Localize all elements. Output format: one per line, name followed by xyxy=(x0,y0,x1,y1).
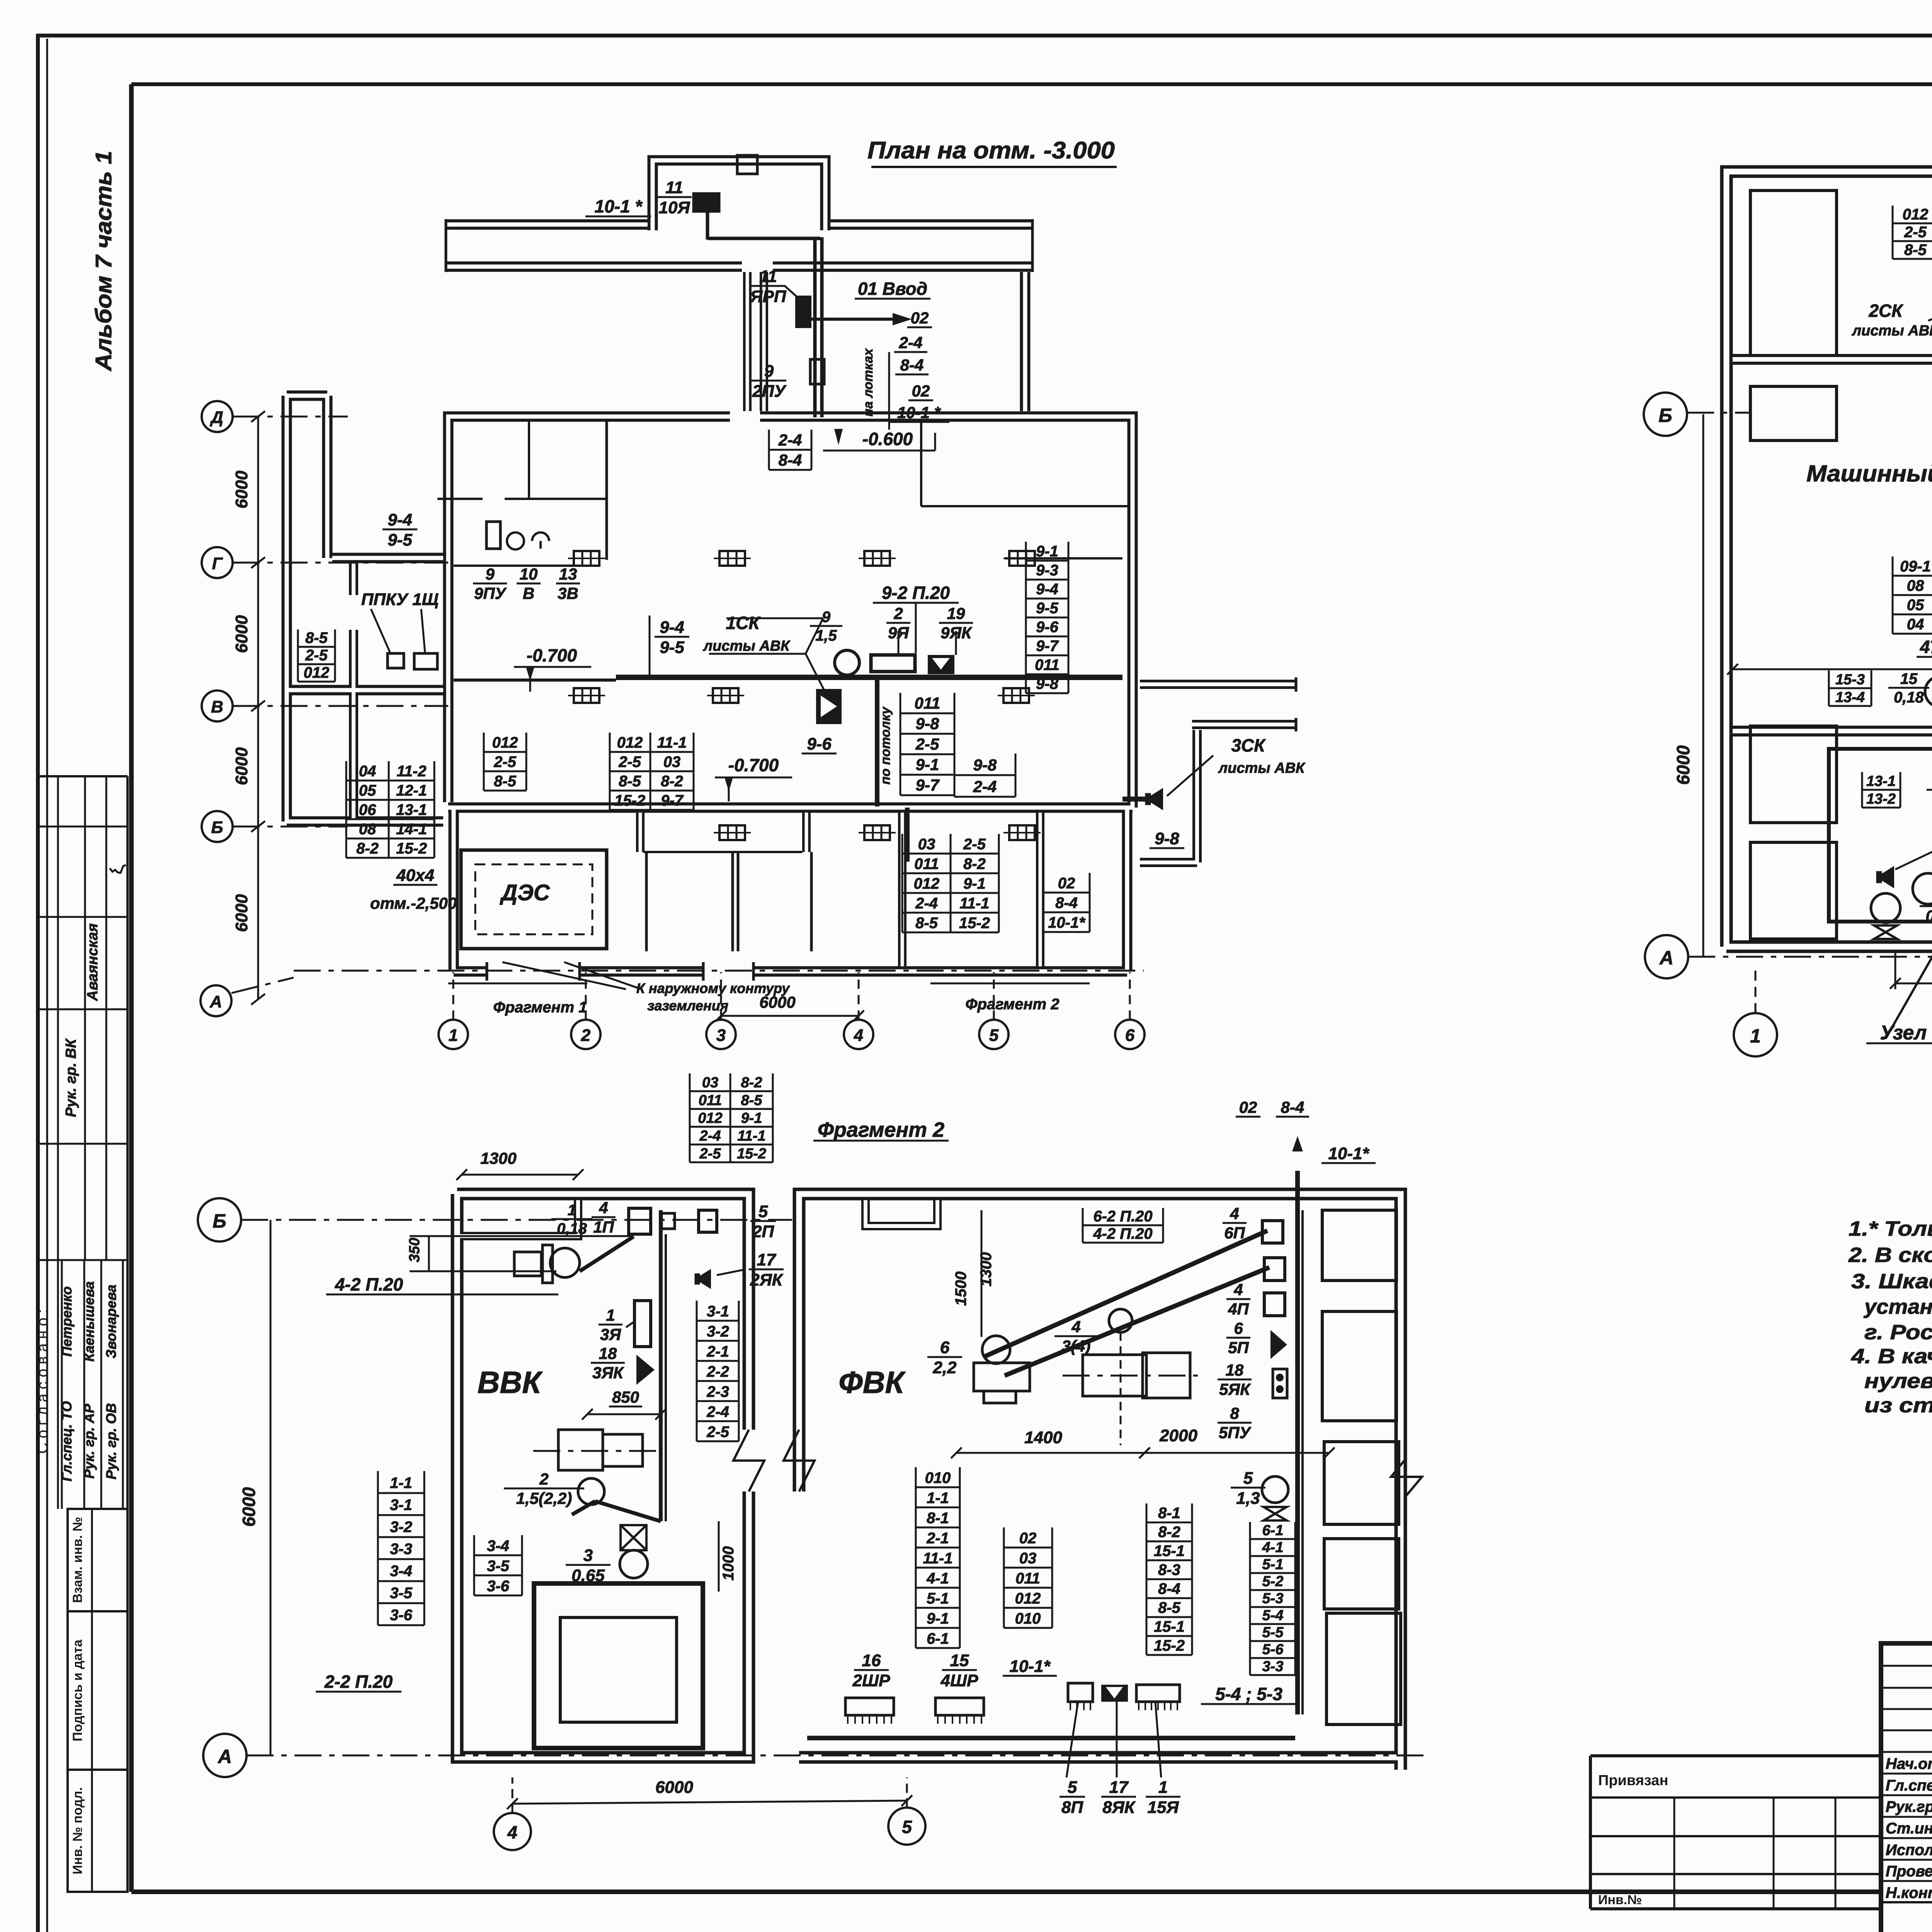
table 04 11-2 xyxy=(346,780,434,782)
paper outer border top xyxy=(37,34,1932,37)
1300 dim VVK xyxy=(462,1174,578,1176)
svg-text:2: 2 xyxy=(893,604,903,622)
thick cable B-row to 3SK xyxy=(1122,797,1146,802)
svg-text:Н.контр.: Н.контр. xyxy=(1886,1884,1932,1901)
svg-text:0,065: 0,065 xyxy=(1925,907,1932,925)
svg-text:3-1: 3-1 xyxy=(390,1497,412,1514)
svg-text:02: 02 xyxy=(1019,1530,1037,1547)
FVK right wing rooms xyxy=(1322,1210,1396,1281)
svg-text:3-2: 3-2 xyxy=(390,1519,412,1536)
svg-text:Инв. № подл.: Инв. № подл. xyxy=(70,1787,85,1874)
svg-text:Рук. гр. ВК: Рук. гр. ВК xyxy=(63,1038,79,1117)
svg-text:9-8: 9-8 xyxy=(973,756,997,774)
svg-text:02: 02 xyxy=(1239,1098,1257,1116)
svg-text:02: 02 xyxy=(912,382,930,400)
bottom devices FVK xyxy=(1068,1683,1093,1702)
table 012 2-5 8-5 xyxy=(484,751,526,753)
svg-text:6000: 6000 xyxy=(1673,745,1693,785)
svg-text:4: 4 xyxy=(1233,1281,1243,1299)
svg-text:15-2: 15-2 xyxy=(737,1146,766,1162)
1P device xyxy=(629,1208,651,1234)
svg-text:03: 03 xyxy=(702,1075,718,1091)
svg-text:6000: 6000 xyxy=(759,993,795,1011)
svg-text:11: 11 xyxy=(665,178,683,197)
svg-text:011: 011 xyxy=(915,694,940,712)
svg-text:9: 9 xyxy=(822,609,831,626)
svg-text:-0.600: -0.600 xyxy=(862,429,913,449)
list 010..6-1 xyxy=(916,1486,960,1488)
svg-text:2-4: 2-4 xyxy=(973,777,997,796)
svg-text:2ЯК: 2ЯК xyxy=(750,1270,784,1289)
svg-text:012: 012 xyxy=(492,734,518,751)
svg-text:9-5: 9-5 xyxy=(1036,600,1059,617)
svg-text:15-3: 15-3 xyxy=(1835,672,1865,688)
svg-text:6000: 6000 xyxy=(655,1778,693,1797)
pump small xyxy=(1925,676,1932,707)
svg-text:8-2: 8-2 xyxy=(1158,1524,1180,1541)
svg-text:1-1: 1-1 xyxy=(927,1490,949,1507)
svg-text:6П: 6П xyxy=(1224,1224,1245,1242)
svg-text:3(4): 3(4) xyxy=(1062,1337,1091,1355)
svg-text:Б: Б xyxy=(1658,405,1672,426)
G row devices xyxy=(486,522,500,549)
svg-text:1СК: 1СК xyxy=(726,613,760,633)
svg-text:3. Шкафы управления 1Щ и: 3. Шкафы управления 1Щ и ППКУ выполняютс… xyxy=(1851,1270,1932,1293)
machine FVK xyxy=(1109,1309,1132,1332)
svg-text:11-2: 11-2 xyxy=(396,763,426,780)
diag cables FVK xyxy=(983,1231,1267,1357)
svg-text:16: 16 xyxy=(862,1651,881,1670)
svg-text:листы АВК: листы АВК xyxy=(1218,760,1306,776)
svg-text:устанавливаются по проекту: устанавливаются по проекту ГПИ „Спецавто… xyxy=(1863,1295,1932,1318)
svg-text:05: 05 xyxy=(1907,597,1924,614)
svg-text:40х4: 40х4 xyxy=(396,866,434,885)
svg-text:ППКУ 1Щ: ППКУ 1Щ xyxy=(361,590,439,609)
B-row cable tray thick line xyxy=(616,675,1122,680)
svg-text:5: 5 xyxy=(902,1817,912,1837)
svg-text:3В: 3В xyxy=(558,584,578,602)
svg-text:12-1: 12-1 xyxy=(396,782,427,799)
svg-text:6: 6 xyxy=(1234,1319,1243,1337)
diag cable VVK xyxy=(580,1236,634,1271)
svg-text:3-4: 3-4 xyxy=(390,1563,412,1580)
list 1-1 3-1..3-6 xyxy=(378,1492,424,1494)
axis lines horizontal xyxy=(233,416,348,418)
svg-text:9-2 П.20: 9-2 П.20 xyxy=(882,583,950,603)
cable drop at column 4 xyxy=(875,680,879,806)
svg-text:5: 5 xyxy=(1068,1778,1077,1797)
svg-text:8ЯК: 8ЯК xyxy=(1102,1798,1136,1817)
svg-text:8: 8 xyxy=(1230,1404,1239,1422)
svg-text:2-5: 2-5 xyxy=(493,753,517,770)
svg-text:3-3: 3-3 xyxy=(1262,1658,1284,1675)
frag1 bottom circles xyxy=(1734,1013,1777,1056)
svg-text:3-3: 3-3 xyxy=(390,1541,412,1558)
svg-text:08: 08 xyxy=(1907,577,1924,594)
svg-text:8-1: 8-1 xyxy=(1158,1505,1180,1522)
svg-text:5-6: 5-6 xyxy=(1262,1641,1284,1658)
inner square room VVK xyxy=(534,1583,703,1748)
svg-text:Подпись и дата: Подпись и дата xyxy=(70,1639,85,1742)
table 011 group xyxy=(900,713,954,714)
svg-text:2-3: 2-3 xyxy=(706,1383,729,1400)
svg-text:15-1: 15-1 xyxy=(1154,1618,1185,1635)
svg-text:8-4: 8-4 xyxy=(779,451,802,469)
G-row thin line right xyxy=(1005,557,1122,560)
svg-text:15-2: 15-2 xyxy=(959,915,990,932)
axis circle B xyxy=(202,811,233,842)
svg-text:04: 04 xyxy=(359,763,376,780)
svg-text:2-2: 2-2 xyxy=(706,1363,729,1380)
svg-text:10-1*: 10-1* xyxy=(1048,914,1086,931)
pump VVK xyxy=(620,1550,648,1578)
svg-text:5ПУ: 5ПУ xyxy=(1219,1423,1252,1442)
svg-text:012: 012 xyxy=(698,1110,722,1126)
column symbols xyxy=(574,551,599,566)
svg-text:350: 350 xyxy=(406,1238,423,1262)
svg-text:9: 9 xyxy=(485,565,495,583)
svg-text:Провер.: Провер. xyxy=(1886,1863,1932,1880)
svg-text:13-2: 13-2 xyxy=(1866,791,1896,807)
svg-text:02: 02 xyxy=(911,309,929,327)
svg-text:9-7: 9-7 xyxy=(1036,638,1059,655)
VVK zigzag break xyxy=(733,1430,764,1492)
svg-text:15-2: 15-2 xyxy=(614,792,645,809)
svg-text:11-1: 11-1 xyxy=(657,734,687,751)
svg-text:3-5: 3-5 xyxy=(390,1585,413,1602)
frag2 bottom circles xyxy=(494,1813,531,1850)
svg-text:4. В качестве заземляющих п: 4. В качестве заземляющих проводников ис… xyxy=(1851,1345,1932,1368)
svg-text:5-4: 5-4 xyxy=(1262,1607,1284,1624)
table 012 11-1 grid xyxy=(610,751,694,753)
6-2 4-2 P20 box xyxy=(1083,1225,1163,1226)
svg-text:010: 010 xyxy=(925,1469,951,1486)
svg-text:1.* Только для варианта с г: 1.* Только для варианта с грузовым лифто… xyxy=(1849,1217,1932,1240)
svg-text:08: 08 xyxy=(359,821,376,838)
svg-text:5-1: 5-1 xyxy=(1262,1556,1284,1573)
svg-text:4: 4 xyxy=(599,1199,608,1217)
svg-text:9-4: 9-4 xyxy=(660,618,684,637)
svg-text:8-5: 8-5 xyxy=(305,629,328,646)
svg-text:8-5: 8-5 xyxy=(915,915,938,932)
svg-text:2П: 2П xyxy=(752,1222,774,1241)
svg-text:3-6: 3-6 xyxy=(487,1578,510,1595)
fan unit FVK xyxy=(982,1336,1010,1364)
svg-text:Г: Г xyxy=(212,554,223,573)
garage lintel and door leaves xyxy=(643,851,802,853)
svg-text:1500: 1500 xyxy=(952,1272,969,1306)
svg-text:012: 012 xyxy=(1015,1590,1041,1607)
svg-text:5ЯК: 5ЯК xyxy=(1219,1380,1251,1398)
svg-text:011: 011 xyxy=(1015,1570,1040,1587)
fragment brackets bottom xyxy=(448,983,587,985)
svg-text:8-1: 8-1 xyxy=(927,1510,949,1527)
svg-text:С о г л а с о в а н о :: С о г л а с о в а н о : xyxy=(34,1309,51,1454)
svg-text:9-1: 9-1 xyxy=(916,755,939,774)
svg-text:6000: 6000 xyxy=(232,747,251,785)
list 6-1..3-3 xyxy=(1250,1538,1295,1540)
svg-text:отм.-2,500: отм.-2,500 xyxy=(370,894,457,912)
svg-text:1: 1 xyxy=(1750,1025,1761,1047)
svg-text:6000: 6000 xyxy=(232,894,251,932)
svg-text:2-5: 2-5 xyxy=(963,836,986,853)
svg-text:02: 02 xyxy=(1058,875,1075,892)
svg-text:4: 4 xyxy=(507,1822,517,1842)
svg-text:8-5: 8-5 xyxy=(1904,241,1927,259)
svg-text:6-1: 6-1 xyxy=(1262,1522,1284,1539)
svg-text:05: 05 xyxy=(359,782,376,799)
svg-text:по потолку: по потолку xyxy=(878,706,893,785)
svg-text:План на отм. -3.000: План на отм. -3.000 xyxy=(867,137,1115,164)
svg-text:01 Ввод: 01 Ввод xyxy=(858,279,927,299)
svg-text:15-1: 15-1 xyxy=(1154,1543,1185,1560)
svg-text:Рук.гр.: Рук.гр. xyxy=(1886,1798,1932,1815)
svg-text:6: 6 xyxy=(1125,1026,1135,1045)
svg-text:11-1: 11-1 xyxy=(923,1550,952,1567)
machine VVK mid xyxy=(558,1430,603,1470)
svg-text:2,2: 2,2 xyxy=(932,1358,957,1377)
svg-text:2-5: 2-5 xyxy=(699,1146,721,1162)
svg-text:2-5: 2-5 xyxy=(618,753,641,770)
svg-text:1,5(2,2): 1,5(2,2) xyxy=(516,1489,572,1507)
svg-text:9-1: 9-1 xyxy=(1036,543,1058,560)
svg-text:5: 5 xyxy=(989,1026,999,1045)
svg-text:13-4: 13-4 xyxy=(1835,689,1865,706)
svg-text:5-3: 5-3 xyxy=(1262,1590,1284,1607)
svg-text:012: 012 xyxy=(304,664,330,681)
svg-text:3-4: 3-4 xyxy=(487,1537,509,1554)
svg-text:Гл.спец.: Гл.спец. xyxy=(1886,1777,1932,1794)
svg-text:3ЯК: 3ЯК xyxy=(592,1364,624,1382)
FVK right zigzag xyxy=(1391,1458,1422,1495)
svg-text:6000: 6000 xyxy=(239,1487,259,1527)
list 02..010 xyxy=(1004,1547,1052,1549)
svg-text:3-5: 3-5 xyxy=(487,1558,510,1575)
gost rows xyxy=(68,1509,128,1611)
bottom wall with door gaps xyxy=(486,962,488,981)
left dimension chain xyxy=(257,417,259,999)
svg-text:012: 012 xyxy=(1903,206,1929,223)
svg-text:4ШР: 4ШР xyxy=(940,1671,979,1690)
svg-text:0,18: 0,18 xyxy=(557,1220,587,1237)
svg-text:8-5: 8-5 xyxy=(619,773,641,790)
svg-text:2-5: 2-5 xyxy=(305,647,328,664)
svg-text:13: 13 xyxy=(559,565,577,583)
svg-text:15Я: 15Я xyxy=(1147,1798,1179,1817)
vertical cable VVK xyxy=(659,1210,663,1521)
svg-text:ДЭС: ДЭС xyxy=(499,880,550,905)
svg-text:17: 17 xyxy=(1109,1778,1129,1797)
svg-text:14-1: 14-1 xyxy=(396,821,427,838)
axis circle G xyxy=(202,547,233,578)
svg-text:03: 03 xyxy=(663,753,681,770)
svg-text:Нач.отд.: Нач.отд. xyxy=(1886,1755,1932,1772)
svg-text:9-3: 9-3 xyxy=(1036,562,1058,579)
svg-text:2-4: 2-4 xyxy=(778,431,802,449)
svg-text:5П: 5П xyxy=(1228,1338,1249,1357)
svg-text:9-8: 9-8 xyxy=(1036,675,1059,692)
svg-text:3: 3 xyxy=(583,1546,593,1565)
svg-text:-0.700: -0.700 xyxy=(527,645,577,665)
svg-text:3СК: 3СК xyxy=(1231,735,1266,755)
svg-text:10-1 *: 10-1 * xyxy=(897,403,941,422)
svg-text:1: 1 xyxy=(449,1026,458,1045)
svg-text:1400: 1400 xyxy=(1024,1428,1062,1447)
list 8-1..15-2 xyxy=(1146,1522,1192,1524)
svg-text:09-1: 09-1 xyxy=(1900,558,1931,575)
svg-text:листы АВК: листы АВК xyxy=(702,638,791,654)
svg-text:9-4: 9-4 xyxy=(1036,581,1058,598)
svg-text:2-4: 2-4 xyxy=(915,895,938,912)
svg-text:9-5: 9-5 xyxy=(388,531,412,549)
svg-text:8П: 8П xyxy=(1061,1798,1083,1817)
svg-text:012: 012 xyxy=(617,734,643,751)
svg-text:03: 03 xyxy=(1019,1550,1037,1567)
table 8-5 2-5 012 xyxy=(298,646,335,648)
svg-text:ФВК: ФВК xyxy=(838,1365,906,1400)
thick cable bottom FVK xyxy=(807,1736,1295,1740)
svg-text:9: 9 xyxy=(764,362,774,381)
svg-text:ВВК: ВВК xyxy=(478,1365,543,1400)
right list 9-1..9-8 xyxy=(1026,560,1068,562)
svg-text:04: 04 xyxy=(1907,616,1924,633)
svg-text:4: 4 xyxy=(1230,1204,1239,1223)
svg-text:012: 012 xyxy=(914,875,940,892)
corridor end caps xyxy=(445,219,447,272)
svg-text:8-5: 8-5 xyxy=(1158,1599,1181,1616)
svg-text:Альбом 7 часть 1: Альбом 7 часть 1 xyxy=(91,151,116,372)
cooling room box xyxy=(1829,749,1932,922)
svg-text:5-2: 5-2 xyxy=(1262,1573,1284,1590)
paper outer border left xyxy=(36,34,40,1932)
frag1 axis circle A xyxy=(1645,935,1688,978)
2-4 8-4 table xyxy=(769,449,811,451)
svg-text:ЯРП: ЯРП xyxy=(750,287,786,306)
svg-text:В: В xyxy=(523,584,534,602)
walls layer xyxy=(457,1194,749,1430)
svg-text:Б: Б xyxy=(213,1210,226,1232)
G-row interior line xyxy=(454,565,597,567)
svg-text:Фрагмент 2: Фрагмент 2 xyxy=(965,996,1059,1013)
svg-text:9-1: 9-1 xyxy=(927,1610,949,1627)
svg-text:2-4: 2-4 xyxy=(699,1128,721,1144)
svg-text:8-3: 8-3 xyxy=(1158,1561,1180,1578)
svg-text:11-1: 11-1 xyxy=(737,1128,765,1144)
svg-text:г. Ростов-на-Дону А-П(Ш,IV): г. Ростов-на-Дону А-П(Ш,IV)-1200-314.86 … xyxy=(1864,1321,1932,1344)
list 3-1..2-5 xyxy=(697,1320,739,1322)
signature column grid xyxy=(1881,1665,1932,1667)
svg-text:8-2: 8-2 xyxy=(661,773,683,790)
svg-text:9-1: 9-1 xyxy=(963,875,986,892)
svg-text:2-5: 2-5 xyxy=(706,1423,730,1440)
svg-text:06: 06 xyxy=(359,801,376,818)
table above title xyxy=(690,1090,773,1092)
svg-text:1,3: 1,3 xyxy=(1236,1489,1260,1508)
left room small xyxy=(1750,386,1837,440)
svg-text:Привязан: Привязан xyxy=(1598,1772,1668,1789)
svg-text:5: 5 xyxy=(1243,1469,1253,1488)
table 13-1 13-2 xyxy=(1862,789,1900,791)
svg-text:4700: 4700 xyxy=(1920,637,1932,657)
svg-text:2-4: 2-4 xyxy=(899,333,923,352)
shaft cable bundle xyxy=(813,240,817,417)
table 02 8-4 10-1 xyxy=(1043,892,1090,894)
svg-text:из стали 40х4.: из стали 40х4. xyxy=(1864,1394,1932,1417)
svg-text:9-8: 9-8 xyxy=(1155,829,1179,848)
svg-text:10-1*: 10-1* xyxy=(1328,1144,1369,1163)
svg-text:5-4 ; 5-3: 5-4 ; 5-3 xyxy=(1215,1684,1282,1704)
svg-text:1-1: 1-1 xyxy=(390,1475,412,1492)
svg-text:2-5: 2-5 xyxy=(915,735,939,753)
walls layer xyxy=(653,160,825,230)
svg-text:4-2 П.20: 4-2 П.20 xyxy=(1093,1225,1152,1242)
frag1 axis circle B xyxy=(1644,393,1687,436)
svg-text:3-1: 3-1 xyxy=(707,1303,729,1320)
bottom axis circles 1-6 xyxy=(439,1020,468,1049)
svg-text:10: 10 xyxy=(520,565,538,583)
svg-text:011: 011 xyxy=(914,855,939,872)
svg-text:листы АВК: листы АВК xyxy=(1851,323,1932,339)
svg-text:010: 010 xyxy=(1015,1610,1041,1627)
svg-text:9-6: 9-6 xyxy=(807,735,832,753)
svg-text:1300: 1300 xyxy=(480,1149,516,1167)
svg-text:2-2 П.20: 2-2 П.20 xyxy=(324,1672,393,1692)
svg-text:4: 4 xyxy=(854,1026,863,1045)
svg-text:6-1: 6-1 xyxy=(927,1630,949,1647)
table 03 2-5 block xyxy=(902,853,999,855)
table 012 2-5 8-5 frag1 xyxy=(1893,223,1932,224)
svg-text:6-2 П.20: 6-2 П.20 xyxy=(1093,1208,1152,1225)
svg-text:15: 15 xyxy=(950,1651,969,1670)
svg-text:Машинный зал ДЭС: Машинный зал ДЭС xyxy=(1806,461,1932,486)
svg-text:-0.700: -0.700 xyxy=(728,755,779,775)
svg-text:6: 6 xyxy=(940,1338,950,1357)
svg-text:011: 011 xyxy=(699,1092,722,1109)
svg-text:0,65: 0,65 xyxy=(571,1566,605,1585)
frag2 dim 6000 left xyxy=(270,1220,272,1755)
svg-text:10-1*: 10-1* xyxy=(1009,1657,1051,1676)
svg-text:заземления: заземления xyxy=(647,998,728,1014)
B axis frag2 xyxy=(198,1198,241,1242)
svg-text:2000: 2000 xyxy=(1159,1426,1197,1445)
3SK speaker xyxy=(1145,788,1163,810)
svg-text:4-1: 4-1 xyxy=(926,1570,949,1587)
svg-text:3Я: 3Я xyxy=(600,1325,621,1344)
svg-text:9-8: 9-8 xyxy=(916,714,939,733)
cooling machines xyxy=(1913,873,1932,904)
svg-text:9-4: 9-4 xyxy=(388,510,412,529)
table 09-1 08 05 04 xyxy=(1893,575,1932,577)
table 3-4 3-5 3-6 xyxy=(474,1554,522,1556)
svg-text:А: А xyxy=(1659,947,1673,969)
svg-text:1000: 1000 xyxy=(720,1546,737,1581)
svg-text:10Я: 10Я xyxy=(658,198,690,217)
svg-text:Фрагмент 1: Фрагмент 1 xyxy=(493,999,587,1016)
diag cable to machine xyxy=(595,1501,661,1521)
svg-text:10-1 *: 10-1 * xyxy=(595,196,643,216)
svg-text:8-5: 8-5 xyxy=(741,1092,763,1109)
svg-text:15-2: 15-2 xyxy=(396,840,427,857)
svg-text:2. В скобках - данные для к: 2. В скобках - данные для климатической … xyxy=(1848,1243,1932,1267)
svg-text:4-1: 4-1 xyxy=(1262,1539,1284,1556)
svg-text:5-5: 5-5 xyxy=(1262,1624,1284,1641)
title block main box xyxy=(1881,1643,1932,1932)
svg-text:0,18: 0,18 xyxy=(1894,689,1924,706)
svg-text:Рук. гр. ОВ: Рук. гр. ОВ xyxy=(103,1403,119,1480)
svg-text:1: 1 xyxy=(568,1202,576,1219)
svg-text:8-2: 8-2 xyxy=(356,840,379,857)
svg-text:18: 18 xyxy=(1226,1361,1244,1379)
